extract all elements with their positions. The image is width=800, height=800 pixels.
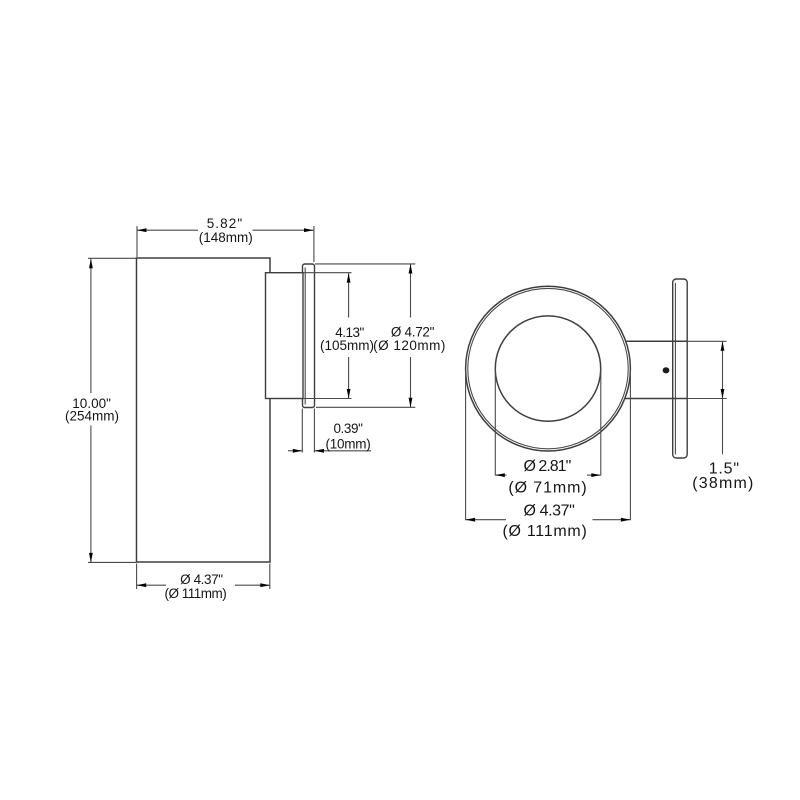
svg-text:Ø 4.37": Ø 4.37" (524, 503, 575, 520)
svg-text:(Ø 71mm): (Ø 71mm) (508, 479, 587, 496)
dimension 4.37in outer diameter (right view): extension lines (465, 369, 467, 521)
lens circle (495, 316, 600, 421)
dimension 0.39in plate thickness: dimension line (288, 450, 302, 452)
dimension 4.37in cylinder diameter (left view): dimension line (137, 584, 166, 586)
dimension 4.13in bracket height: dimension line (348, 273, 350, 317)
svg-text:0.39": 0.39" (333, 421, 363, 436)
outer rim circle (466, 286, 631, 451)
mounting arm top edge (626, 340, 687, 342)
svg-text:(148mm): (148mm) (199, 230, 253, 245)
dimension 1.5in arm height: dimension line (722, 341, 724, 454)
svg-text:(254mm): (254mm) (65, 409, 119, 424)
cylinder body (side view) (137, 258, 271, 562)
svg-text:(Ø 120mm): (Ø 120mm) (373, 338, 446, 353)
dimension 10.00in height: extension lines (88, 257, 136, 259)
svg-text:Ø 2.81": Ø 2.81" (524, 458, 571, 475)
dimension 2.81in lens diameter: extension lines (494, 369, 496, 476)
svg-text:(Ø 111mm): (Ø 111mm) (165, 586, 227, 601)
extension line: bracket bottom to 4.13 dim (303, 398, 352, 400)
screw hole dot (663, 367, 670, 373)
wall plate front-face inner line (304, 268, 306, 405)
svg-text:Ø 4.37": Ø 4.37" (180, 572, 223, 587)
mounting bracket arm (side view) (266, 273, 304, 399)
wall plate (front view, edge-on) (673, 279, 688, 458)
dimension 5.82in width: extension lines (136, 226, 138, 257)
dimension 10.00in height: dimension line (90, 259, 92, 393)
svg-text:(105mm): (105mm) (320, 338, 374, 353)
extension line: plate bottom to 4.72 dim (316, 406, 415, 408)
svg-text:(Ø 111mm): (Ø 111mm) (502, 523, 587, 540)
dimension 4.37in outer diameter (right view): dimension line (466, 519, 506, 521)
dimension 2.81in lens diameter: dimension line (495, 474, 506, 476)
extension line: plate top to 4.72 dim (315, 263, 415, 265)
dimension 0.39in plate thickness: extension lines (301, 409, 303, 453)
svg-text:5.82": 5.82" (207, 216, 244, 231)
dimension 5.82in width: dimension line (137, 229, 198, 231)
svg-text:(10mm): (10mm) (326, 437, 371, 452)
svg-text:(38mm): (38mm) (692, 475, 754, 492)
inner rim circle (468, 288, 628, 448)
mounting arm bottom edge (625, 398, 687, 400)
wall plate front-face inner line (674, 283, 676, 455)
wall plate (side view, rounded slab) (303, 264, 315, 408)
dimension 4.37in cylinder diameter (left view): extension lines (136, 564, 138, 590)
extension line: bracket top to 4.13 dim (303, 272, 352, 274)
dimension 4.72in plate diameter: dimension line (410, 264, 412, 318)
